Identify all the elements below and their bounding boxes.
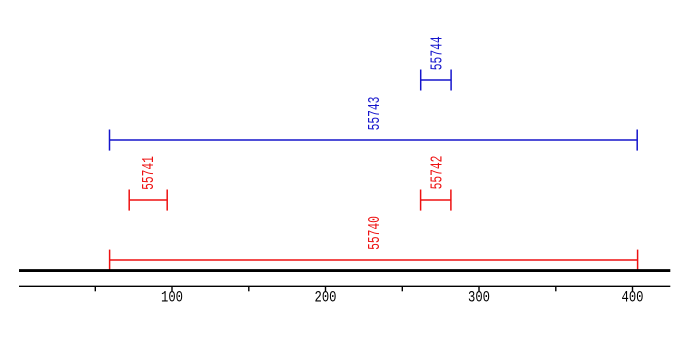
feature bar 55742 (red I-beam, row 3 right) bbox=[421, 190, 451, 211]
tick 200 bbox=[325, 287, 327, 291]
tick 50 bbox=[94, 287, 96, 291]
svg-text:55740: 55740 bbox=[366, 216, 385, 250]
svg-text:55741: 55741 bbox=[140, 156, 159, 190]
feature bar 55740 (red I-beam, row 4) bbox=[110, 250, 638, 270]
tick 150 bbox=[248, 287, 250, 291]
tick 100 bbox=[171, 287, 173, 291]
tick 250 bbox=[401, 287, 403, 291]
feature bar 55743 (blue I-beam, row 2) bbox=[110, 130, 638, 151]
thick reference line bbox=[19, 269, 670, 272]
feature bar 55741 (red I-beam, row 3 left) bbox=[129, 190, 167, 211]
tick 350 bbox=[555, 287, 557, 291]
svg-text:400: 400 bbox=[622, 289, 644, 307]
feature bar 55744 (blue I-beam, row 1) bbox=[421, 70, 451, 91]
svg-text:55743: 55743 bbox=[366, 97, 385, 131]
ruler base line bbox=[19, 285, 670, 287]
svg-text:100: 100 bbox=[161, 289, 183, 307]
svg-text:200: 200 bbox=[315, 289, 337, 307]
svg-text:300: 300 bbox=[468, 289, 490, 307]
tick 400 bbox=[632, 287, 634, 291]
svg-text:55742: 55742 bbox=[428, 156, 447, 190]
svg-text:55744: 55744 bbox=[428, 36, 447, 70]
tick 300 bbox=[478, 287, 480, 291]
